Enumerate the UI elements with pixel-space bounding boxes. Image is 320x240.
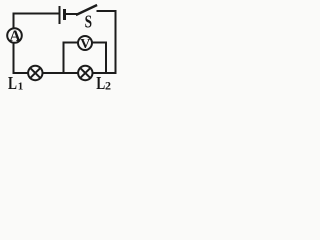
svg-text:L: L: [8, 73, 17, 92]
svg-text:S: S: [85, 12, 92, 32]
svg-text:V: V: [80, 37, 90, 52]
svg-text:L: L: [96, 73, 105, 92]
svg-text:2: 2: [105, 79, 111, 92]
svg-text:1: 1: [18, 80, 24, 92]
svg-text:A: A: [9, 28, 21, 45]
